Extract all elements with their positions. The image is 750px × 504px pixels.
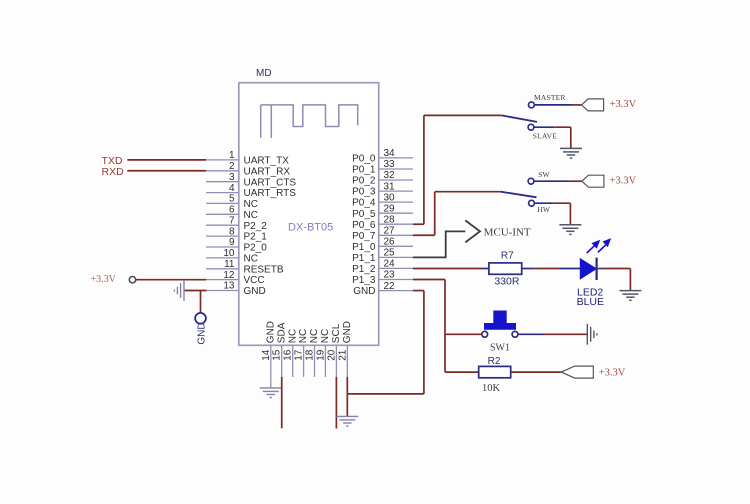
svg-text:20: 20 (326, 349, 337, 361)
svg-text:18: 18 (305, 349, 316, 361)
svg-text:23: 23 (384, 270, 396, 281)
svg-text:P0_4: P0_4 (352, 198, 376, 209)
svg-text:P0_3: P0_3 (352, 187, 376, 198)
pin 4 UART_RTS stub wire (206, 192, 239, 194)
push button SW1 cap (484, 311, 516, 330)
switch S1 lever (502, 115, 537, 122)
svg-text:14: 14 (261, 349, 272, 361)
resistor R7 (489, 263, 522, 274)
wire RXD to pin 2 (127, 170, 206, 172)
svg-text:R2: R2 (488, 356, 501, 367)
svg-text:GND: GND (342, 321, 353, 343)
ground below pin 21 (336, 416, 358, 426)
svg-text:13: 13 (223, 281, 235, 292)
switch contact MASTER circle (529, 102, 535, 108)
pin 6 NC stub wire (206, 213, 239, 215)
svg-text:SLAVE: SLAVE (533, 131, 557, 140)
svg-text:SW: SW (538, 170, 550, 179)
wire pin 14 to ground (270, 377, 272, 388)
svg-text:10: 10 (223, 248, 235, 259)
wire vertical pin 22 down (423, 291, 425, 394)
svg-text:BLUE: BLUE (577, 296, 604, 308)
svg-text:12: 12 (223, 270, 235, 281)
pin 24 P1_2 stub wire (379, 267, 413, 269)
svg-text:SDA: SDA (276, 322, 287, 343)
svg-text:34: 34 (384, 148, 396, 159)
pin 33 P0_1 stub wire (379, 168, 413, 170)
ground below HW (559, 225, 581, 235)
wire to SW1 (445, 333, 482, 335)
wire top rail to switch (424, 114, 502, 116)
svg-text:11: 11 (224, 259, 235, 270)
wire MASTER to power flag (534, 104, 572, 106)
ground right of SW1 rotated (587, 324, 597, 345)
svg-text:NC: NC (244, 199, 258, 210)
IC U1 DX-BT05 module body (239, 83, 379, 346)
pin 9 P2_0 stub wire (206, 246, 239, 248)
svg-text:MCU-INT: MCU-INT (484, 227, 531, 239)
svg-text:MD: MD (256, 68, 272, 79)
svg-text:GND: GND (353, 286, 375, 297)
svg-text:UART_CTS: UART_CTS (244, 177, 297, 188)
pin 30 P0_4 stub wire (379, 201, 413, 203)
wire pin 23 P1_3 right (413, 279, 445, 281)
pin 20 SCL stub wire (335, 345, 337, 377)
svg-text:P0_7: P0_7 (352, 231, 376, 242)
svg-text:P2_0: P2_0 (244, 243, 268, 254)
wire horizontal to pin 21 net (347, 393, 424, 395)
pin 10 NC stub wire (206, 257, 239, 259)
svg-text:15: 15 (272, 349, 283, 361)
svg-text:RXD: RXD (102, 166, 125, 178)
svg-text:P2_1: P2_1 (244, 232, 268, 243)
svg-text:DX-BT05: DX-BT05 (288, 221, 333, 233)
svg-text:P0_5: P0_5 (352, 209, 376, 220)
pin 2 UART_RX stub wire (206, 170, 239, 172)
wire R7 to LED2 (522, 268, 535, 270)
ground below SLAVE (560, 148, 582, 158)
svg-text:29: 29 (384, 203, 396, 214)
svg-text:7: 7 (229, 215, 235, 226)
pin 26 P1_0 stub wire (379, 245, 413, 247)
power flag +3.3V r2 (561, 366, 593, 378)
svg-text:25: 25 (384, 248, 396, 259)
power flag +3.3V sw (582, 175, 604, 187)
svg-text:P0_1: P0_1 (352, 165, 376, 176)
wire pin 13 GND to ground (184, 290, 206, 292)
svg-text:+3.3V: +3.3V (610, 99, 637, 110)
wire pin 27 P0_7 to switch riser (413, 234, 435, 236)
svg-text:SW1: SW1 (490, 343, 510, 354)
svg-text:GND: GND (197, 322, 208, 344)
pin 32 P0_2 stub wire (379, 179, 413, 181)
pin 8 P2_1 stub wire (206, 235, 239, 237)
svg-text:32: 32 (384, 170, 396, 181)
wire LED2 to ground (598, 268, 605, 270)
LED2 cathode bar (595, 258, 597, 280)
pin 15 SDA stub wire (281, 345, 283, 377)
wire pin 25 P1_1 MCU-INT step (413, 231, 465, 257)
wire rail to switch (435, 191, 501, 193)
wire pin 20 SCL stub down (335, 377, 337, 429)
pin 25 P1_1 stub wire (379, 256, 413, 258)
svg-text:P1_0: P1_0 (352, 242, 376, 253)
ground below LED2 (619, 291, 641, 301)
pin 12 VCC stub wire (206, 279, 239, 281)
svg-text:6: 6 (229, 205, 235, 216)
pin 7 P2_2 stub wire (206, 224, 239, 226)
wire SW1 to ground (518, 333, 543, 335)
svg-text:GND: GND (244, 286, 266, 297)
wire SW to power flag (534, 180, 569, 182)
svg-text:9: 9 (229, 237, 235, 248)
pin 21 GND stub wire (346, 345, 348, 377)
svg-text:SCL: SCL (331, 323, 342, 343)
svg-text:10K: 10K (482, 383, 501, 394)
wire riser up (434, 192, 436, 236)
svg-text:330R: 330R (494, 275, 520, 287)
pin 34 P0_0 stub wire (379, 157, 413, 159)
wire pin 22 GND to vertical (413, 290, 424, 292)
pin 13 GND stub wire (206, 290, 239, 292)
wire pin 24 P1_2 to R7 (413, 268, 481, 270)
pin 18 NC stub wire (314, 345, 316, 377)
pin 19 NC stub wire (324, 345, 326, 377)
pin 22 GND stub wire (379, 290, 413, 292)
LED2 light arrow 2 (598, 240, 610, 253)
svg-text:1: 1 (229, 150, 235, 161)
LED2 light arrow 1 (587, 241, 599, 253)
pin 27 P0_7 stub wire (379, 234, 413, 236)
svg-text:+3.3V: +3.3V (610, 175, 637, 186)
svg-text:24: 24 (384, 259, 396, 270)
svg-text:P2_2: P2_2 (244, 221, 268, 232)
wire HW to ground (534, 202, 552, 204)
wire pin 21 down to ground (346, 377, 348, 417)
svg-text:21: 21 (337, 349, 348, 361)
resistor R2 (479, 366, 511, 377)
svg-text:P0_2: P0_2 (352, 176, 376, 187)
svg-text:22: 22 (384, 281, 396, 292)
svg-text:UART_RTS: UART_RTS (244, 188, 297, 199)
pin 17 NC stub wire (303, 345, 305, 377)
svg-text:28: 28 (384, 214, 396, 225)
svg-text:8: 8 (229, 226, 235, 237)
pin 29 P0_5 stub wire (379, 212, 413, 214)
wire R2 to power flag (511, 371, 562, 373)
pin 16 NC stub wire (292, 345, 294, 377)
svg-text:16: 16 (283, 349, 294, 361)
svg-text:26: 26 (384, 237, 396, 248)
svg-text:3: 3 (229, 172, 235, 183)
svg-text:NC: NC (244, 254, 258, 265)
wire +3.3V to pin 12 VCC (136, 279, 206, 281)
svg-text:MASTER: MASTER (534, 93, 566, 102)
pin 23 P1_3 stub wire (379, 279, 413, 281)
svg-text:27: 27 (384, 226, 396, 237)
GND port circle (195, 313, 206, 324)
svg-text:HW: HW (537, 205, 551, 214)
svg-text:UART_TX: UART_TX (244, 156, 290, 167)
svg-text:2: 2 (229, 161, 235, 172)
svg-text:NC: NC (309, 329, 320, 343)
wire pin 23 riser down (444, 280, 446, 373)
switch contact HW circle (529, 200, 535, 206)
pin 31 P0_3 stub wire (379, 190, 413, 192)
svg-text:P1_3: P1_3 (352, 275, 376, 286)
pin 1 UART_TX stub wire (206, 159, 239, 161)
arrow head MCU-INT (465, 220, 480, 242)
svg-text:P0_6: P0_6 (352, 220, 376, 231)
svg-text:30: 30 (384, 192, 396, 203)
svg-text:+3.3V: +3.3V (91, 274, 117, 285)
svg-text:17: 17 (294, 349, 305, 361)
wire pin 15 SDA stub down (281, 377, 283, 428)
switch contact SLAVE circle (528, 124, 534, 130)
wire SLAVE to ground (534, 126, 554, 128)
terminal circle +3.3V (129, 277, 135, 283)
svg-text:UART_RX: UART_RX (244, 166, 291, 177)
svg-text:31: 31 (384, 181, 396, 192)
svg-text:P0_0: P0_0 (352, 154, 376, 165)
svg-text:P1_1: P1_1 (352, 253, 376, 264)
wire to R2 (445, 371, 479, 373)
pin 3 UART_CTS stub wire (206, 181, 239, 183)
svg-text:5: 5 (229, 194, 235, 205)
svg-text:NC: NC (298, 329, 309, 343)
antenna trace inside module (261, 105, 358, 138)
pin 14 GND stub wire (270, 345, 272, 377)
wire pin 28 P0_6 to switch riser (413, 223, 424, 225)
svg-text:R7: R7 (501, 250, 514, 261)
switch contact SW circle (528, 178, 534, 184)
svg-text:RESETB: RESETB (244, 264, 284, 275)
ground GND pin13 rotated left (174, 280, 184, 301)
wire riser up (423, 115, 425, 224)
svg-text:P1_2: P1_2 (352, 264, 376, 275)
wire junction down to GND port (200, 291, 202, 313)
ground below pin 14 (260, 388, 282, 398)
svg-text:NC: NC (320, 329, 331, 343)
svg-text:19: 19 (315, 349, 326, 361)
svg-text:33: 33 (384, 159, 396, 170)
pin 5 NC stub wire (206, 202, 239, 204)
pin 28 P0_6 stub wire (379, 223, 413, 225)
power flag +3.3V master (582, 99, 604, 111)
LED2 diode triangle (580, 259, 596, 279)
svg-text:NC: NC (287, 329, 298, 343)
pin 11 RESETB stub wire (206, 268, 239, 270)
svg-text:VCC: VCC (244, 275, 265, 286)
switch S2 lever (501, 192, 537, 198)
svg-text:GND: GND (265, 321, 276, 343)
push button SW1 contacts (482, 331, 488, 337)
svg-text:4: 4 (229, 183, 235, 194)
wire TXD to pin 1 (127, 159, 206, 161)
svg-text:NC: NC (244, 210, 258, 221)
svg-text:+3.3V: +3.3V (599, 367, 626, 378)
